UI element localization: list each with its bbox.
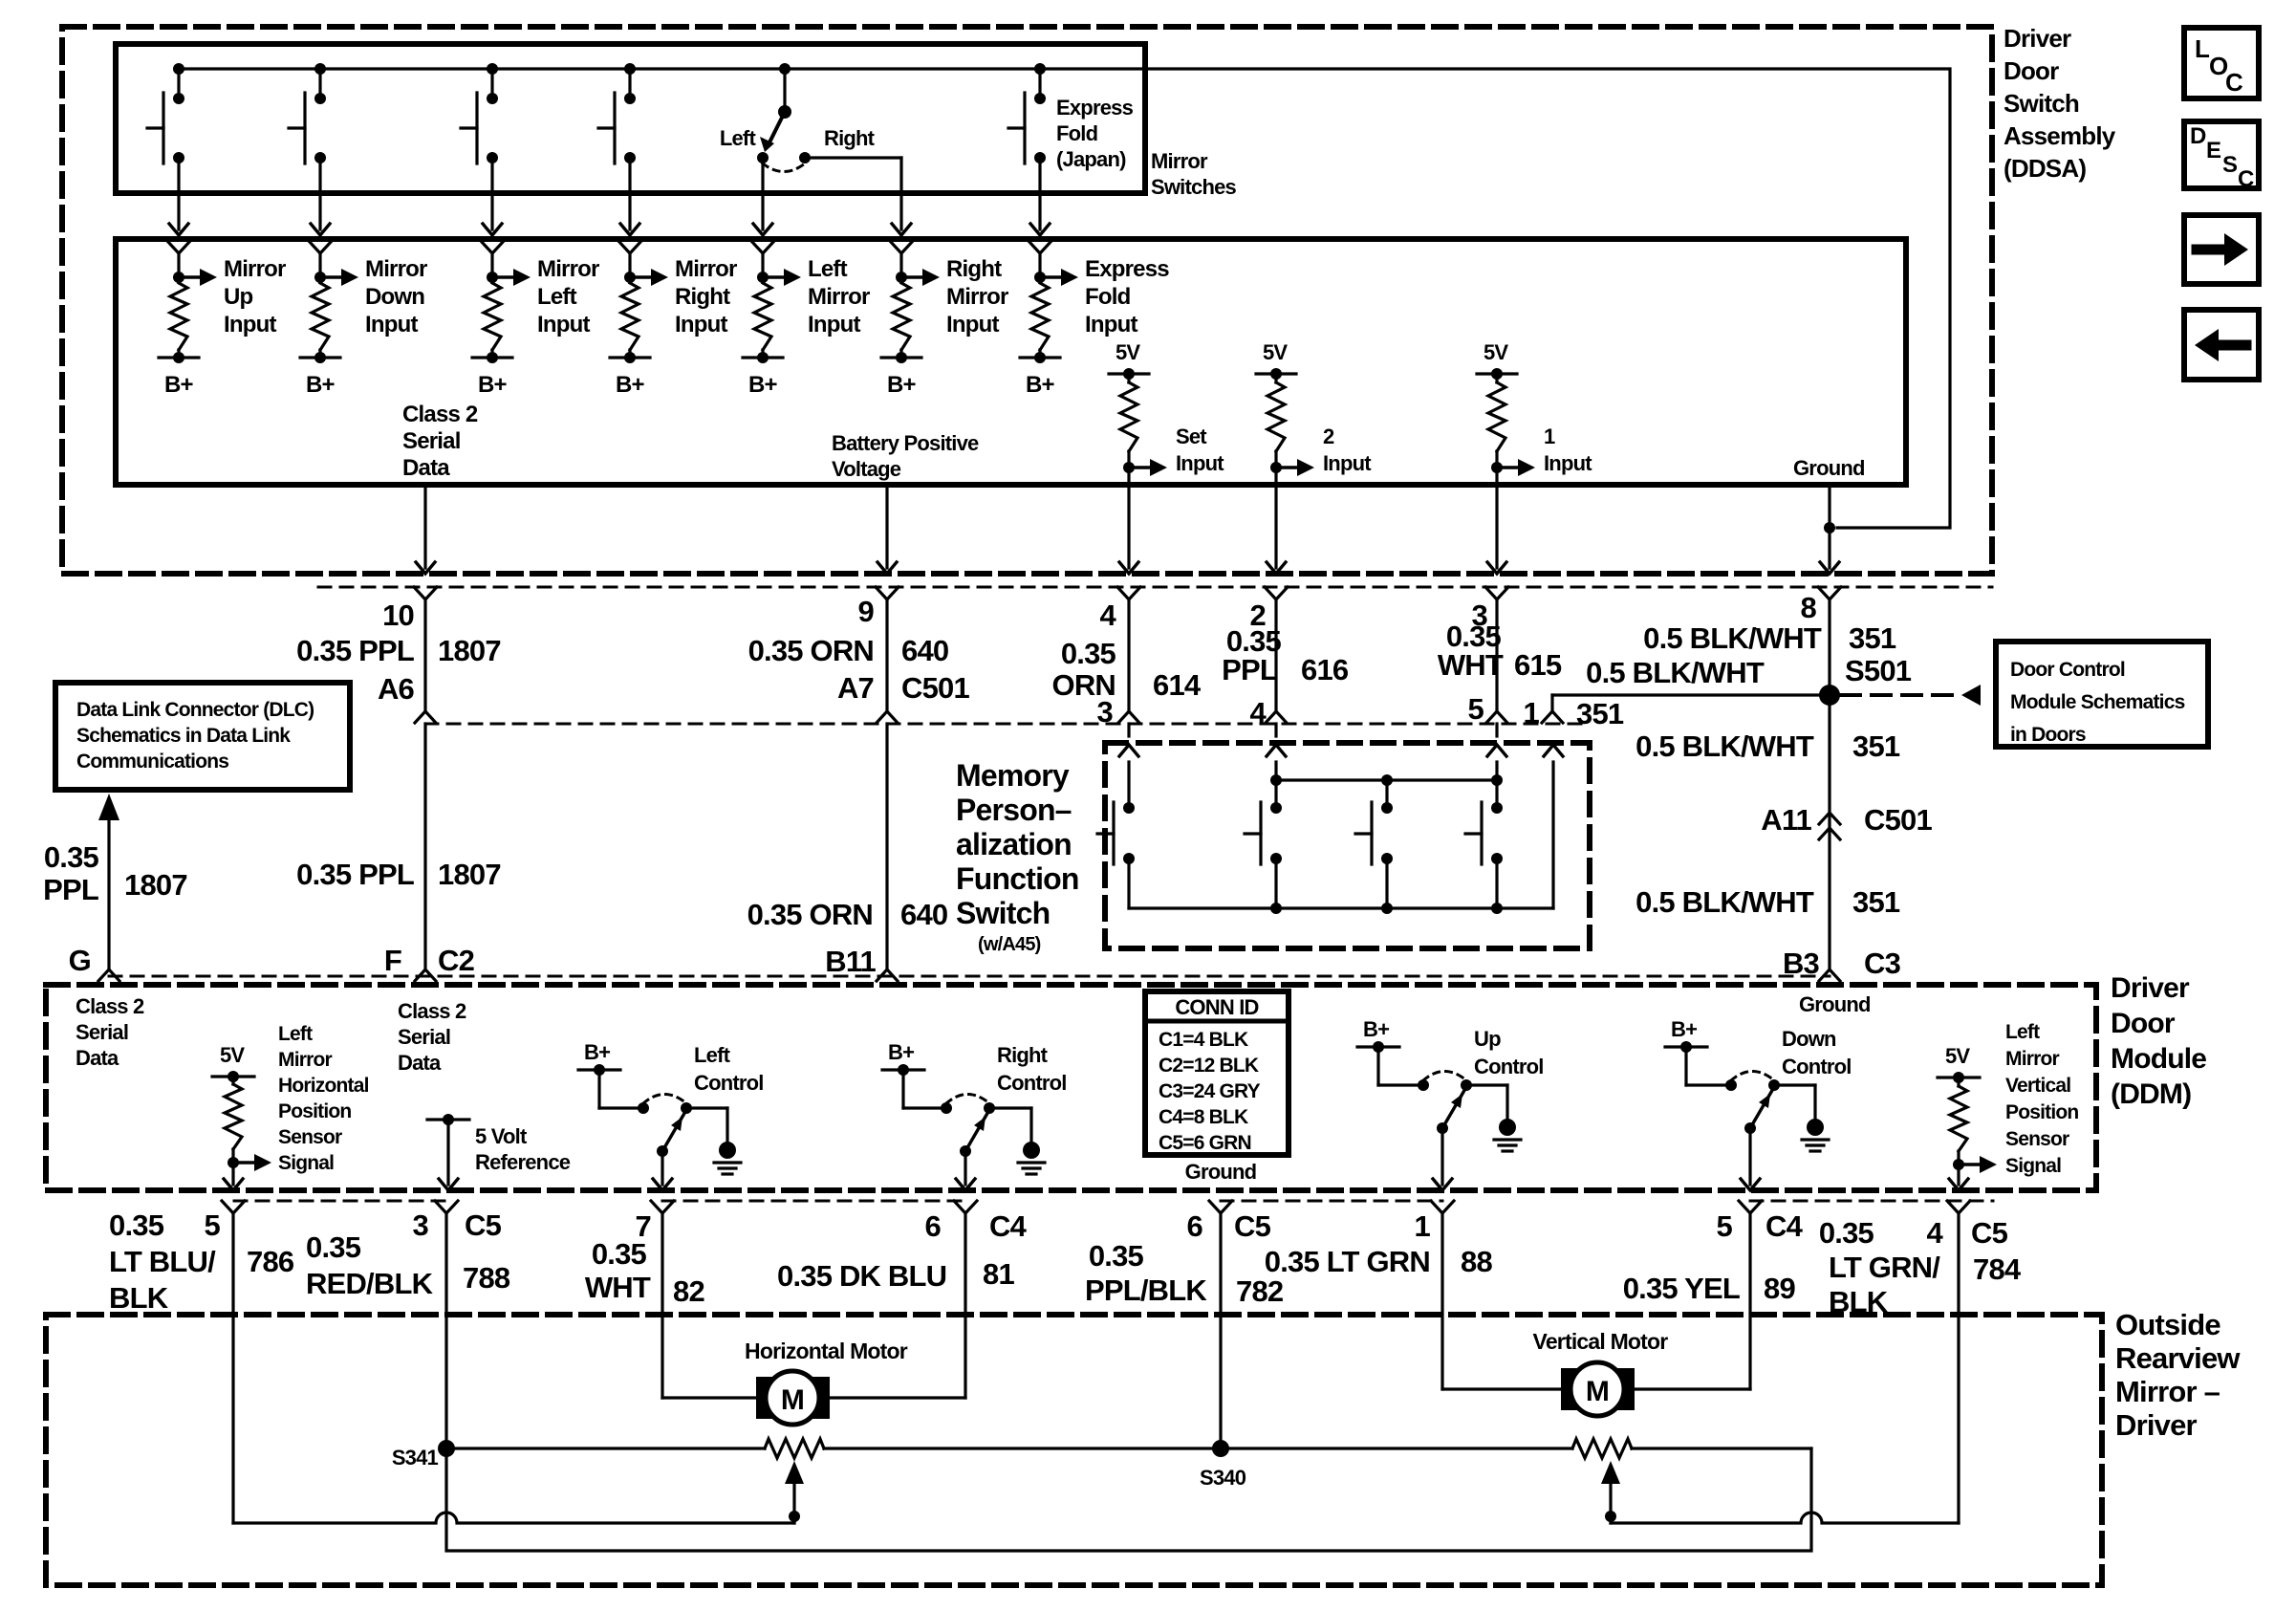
svg-text:Left: Left (694, 1043, 731, 1067)
svg-text:B+: B+ (1026, 372, 1055, 398)
resistor R8 set input pull-up (1127, 374, 1130, 382)
svg-text:640: 640 (901, 634, 948, 667)
svg-text:RED/BLK: RED/BLK (306, 1267, 434, 1300)
wire mirror up switch output (177, 158, 180, 229)
svg-text:Ground: Ground (1799, 992, 1871, 1016)
svg-text:Signal: Signal (2005, 1155, 2061, 1177)
wire 89 (1748, 1214, 1751, 1389)
wire mirror right switch output (628, 158, 631, 229)
svg-text:3: 3 (413, 1208, 429, 1242)
svg-text:M: M (781, 1384, 804, 1416)
svg-text:8: 8 (1801, 591, 1817, 624)
svg-text:in Doors: in Doors (2010, 724, 2086, 746)
svg-text:Reference: Reference (475, 1150, 571, 1174)
wire 640 through connector (885, 600, 888, 711)
svg-text:Mirror: Mirror (278, 1049, 333, 1071)
wire 89 exit DDM (1748, 1128, 1751, 1185)
svg-text:786: 786 (247, 1245, 294, 1278)
wire 1807 to DLC (node G) (98, 794, 119, 820)
pull-up resistor R4 mirror right input (624, 272, 636, 283)
DDM pin F symbol (415, 969, 436, 981)
svg-text:S: S (2222, 152, 2238, 178)
bus wire (switch common feed) (179, 69, 1950, 528)
svg-text:Serial: Serial (398, 1025, 450, 1049)
svg-text:Assembly: Assembly (2004, 121, 2116, 150)
wire 5V input exit x=1566 (1495, 485, 1498, 568)
svg-text:Down: Down (1782, 1027, 1836, 1051)
splice S340 (1212, 1440, 1229, 1457)
mirror down switch (318, 69, 321, 98)
wire R10 memory 1 input pull-up output (1495, 468, 1498, 485)
svg-text:Input: Input (1085, 312, 1137, 337)
connector C501 male pin x=1624 (1542, 711, 1563, 723)
svg-text:B+: B+ (478, 372, 508, 398)
connector C501 row (thin dashed) (318, 586, 1992, 589)
wire 615 through connector (1495, 600, 1498, 711)
lower connector female pin x=1509 (1431, 1201, 1454, 1213)
svg-text:PPL: PPL (1222, 653, 1277, 686)
pin (female) into DDSA box x=515 (481, 241, 504, 253)
wire wiper to 786 (with hop) (233, 1513, 794, 1523)
svg-text:C2: C2 (438, 944, 474, 977)
svg-text:Horizontal: Horizontal (278, 1075, 369, 1097)
horizontal sensor wiper (785, 1461, 804, 1484)
B+ supply for R1 mirror up input (177, 350, 180, 358)
connector C501 male pin x=1566 (1486, 711, 1507, 723)
svg-text:Input: Input (808, 312, 860, 337)
svg-text:Class 2: Class 2 (76, 994, 144, 1018)
svg-text:Class 2: Class 2 (402, 402, 478, 427)
wire 614 through connector (1127, 600, 1130, 711)
memory set switch (1123, 802, 1135, 814)
pin (female) into DDSA box x=1088 (1029, 241, 1051, 253)
svg-text:Express: Express (1085, 256, 1169, 282)
resistor R10 memory 1 input pull-up (1495, 374, 1498, 382)
svg-text:351: 351 (1852, 729, 1900, 763)
svg-text:Door: Door (2111, 1008, 2176, 1039)
svg-text:Serial: Serial (76, 1020, 128, 1044)
svg-text:782: 782 (1236, 1274, 1283, 1308)
connector C501 female pin x=1566 (1485, 587, 1508, 599)
wire 614 into memory switch (1127, 724, 1130, 736)
svg-text:4: 4 (1927, 1216, 1944, 1250)
wire memory 1 switch feed (1495, 762, 1498, 808)
Outside Rearview Mirror dashed box (46, 1315, 2102, 1585)
lower connector female pin x=467 (435, 1201, 458, 1213)
svg-text:S501: S501 (1845, 654, 1912, 687)
wire motor to 89 (1624, 1387, 1750, 1390)
svg-text:C3=24 GRY: C3=24 GRY (1159, 1080, 1261, 1102)
svg-text:1: 1 (1524, 696, 1540, 729)
svg-text:0.35 ORN: 0.35 ORN (748, 634, 874, 667)
svg-text:A6: A6 (378, 672, 415, 706)
vertical motor M2 (1561, 1368, 1635, 1410)
DDM pin B11 symbol (877, 969, 898, 981)
svg-text:(Japan): (Japan) (1056, 147, 1126, 171)
DESC legend box (2184, 121, 2259, 188)
svg-text:5: 5 (1717, 1209, 1733, 1243)
right-arrow legend box (2184, 215, 2259, 284)
DDM top connector row (thin dashed) (109, 975, 1830, 978)
svg-text:WHT: WHT (1438, 648, 1504, 682)
svg-text:A11: A11 (1761, 803, 1811, 837)
svg-text:Person–: Person– (956, 793, 1072, 827)
wire 82 to motor (662, 1396, 766, 1399)
svg-text:Communications: Communications (76, 751, 228, 773)
wire 351 pin8 (1828, 600, 1830, 969)
Driver Door Switch Assembly (DDSA) dashed boundary box (62, 27, 1992, 574)
resistor vertical position sensor track (1572, 1439, 1632, 1458)
B+ supply for R3 mirror left input (490, 350, 493, 358)
svg-text:351: 351 (1576, 697, 1624, 730)
svg-text:B11: B11 (825, 945, 876, 978)
memory switch top bus (1276, 778, 1497, 781)
svg-text:1807: 1807 (124, 868, 187, 902)
svg-text:F: F (384, 944, 401, 977)
lower connector female pin x=1831 (1739, 1201, 1762, 1213)
svg-text:Schematics in Data Link: Schematics in Data Link (76, 725, 291, 747)
svg-text:C501: C501 (1864, 803, 1932, 837)
svg-text:A7: A7 (837, 671, 874, 705)
svg-text:G: G (69, 944, 91, 977)
svg-text:Left: Left (720, 126, 757, 150)
svg-text:C5=6 GRN: C5=6 GRN (1159, 1132, 1251, 1154)
svg-text:0.35: 0.35 (44, 840, 99, 874)
svg-text:615: 615 (1514, 648, 1562, 682)
svg-text:Mirror: Mirror (537, 256, 599, 282)
vertical sensor wiper (1601, 1461, 1620, 1484)
svg-text:5 Volt: 5 Volt (475, 1124, 528, 1148)
wire 640 connector-to-DDM (node B11) (885, 724, 888, 969)
down control switch (1665, 1045, 1707, 1048)
svg-text:5: 5 (205, 1208, 221, 1242)
wire 615 into memory switch (1495, 724, 1498, 736)
svg-text:Left: Left (537, 284, 577, 310)
svg-text:0.5 BLK/WHT: 0.5 BLK/WHT (1643, 621, 1822, 655)
wire 351 pin1 stub (1550, 695, 1553, 711)
wire 5V track (S341 run) (446, 1447, 765, 1449)
Data Link Connector callout box (55, 683, 350, 790)
wire mirror down switch output (318, 158, 321, 229)
svg-text:Fold: Fold (1085, 284, 1131, 310)
bus junction node x=1088 (1034, 63, 1046, 75)
wire memory ground riser (1551, 762, 1554, 908)
wire ground pin 8 (1828, 485, 1830, 568)
wire memory 2 switch feed (1274, 762, 1277, 808)
svg-text:M: M (1586, 1376, 1609, 1407)
svg-text:C: C (2238, 166, 2254, 192)
wire class2 serial data pin 10 (423, 485, 426, 568)
B+ supply for R7 express fold input (1038, 350, 1041, 358)
lower connector female pin x=1277 (1209, 1201, 1232, 1213)
svg-text:0.35 ORN: 0.35 ORN (747, 898, 873, 931)
svg-text:Mirror: Mirror (2005, 1048, 2060, 1070)
svg-text:Ground: Ground (1185, 1160, 1257, 1184)
svg-text:Up: Up (1474, 1027, 1501, 1051)
splice S501 (1819, 685, 1840, 706)
svg-text:Driver: Driver (2115, 1408, 2198, 1442)
svg-text:S340: S340 (1200, 1466, 1246, 1490)
svg-text:3: 3 (1097, 695, 1114, 729)
svg-text:Input: Input (1544, 451, 1592, 475)
svg-text:B+: B+ (164, 372, 194, 398)
svg-text:81: 81 (983, 1257, 1014, 1291)
svg-text:Battery Positive: Battery Positive (832, 431, 979, 455)
svg-text:B+: B+ (1671, 1017, 1697, 1041)
svg-text:Right: Right (997, 1043, 1049, 1067)
svg-text:Down: Down (365, 284, 424, 310)
svg-text:B+: B+ (1363, 1017, 1389, 1041)
svg-text:5V: 5V (1263, 340, 1288, 364)
svg-text:Vertical: Vertical (2005, 1075, 2070, 1097)
bus junction node x=187 (173, 63, 184, 75)
svg-text:Control: Control (1474, 1055, 1544, 1078)
svg-text:4: 4 (1250, 696, 1267, 729)
svg-text:784: 784 (1973, 1252, 2022, 1286)
svg-text:C4: C4 (1765, 1209, 1804, 1243)
memory 2 switch (1270, 802, 1282, 814)
svg-text:B+: B+ (887, 372, 917, 398)
wire selector right output (805, 156, 901, 159)
svg-text:6: 6 (1187, 1209, 1203, 1243)
svg-text:(DDM): (DDM) (2111, 1078, 2191, 1110)
svg-text:Rearview: Rearview (2115, 1341, 2241, 1375)
svg-text:Input: Input (224, 312, 276, 337)
svg-text:PPL: PPL (43, 873, 98, 906)
lower connector female pin x=244 (222, 1201, 245, 1213)
memory switch pin (up arrow) x=1335 (1267, 745, 1286, 756)
svg-text:Data: Data (398, 1051, 442, 1075)
svg-text:0.35 LT GRN: 0.35 LT GRN (1265, 1245, 1430, 1278)
wire express fold output (1038, 158, 1041, 229)
wire 1807 connector-to-DDM (node F) (423, 724, 426, 969)
B+ supply for R6 right mirror input (899, 350, 902, 358)
svg-text:0.5 BLK/WHT: 0.5 BLK/WHT (1586, 656, 1765, 689)
CONN ID table (1145, 991, 1289, 1155)
svg-text:Up: Up (224, 284, 253, 310)
svg-text:Horizontal Motor: Horizontal Motor (745, 1339, 908, 1363)
wire to door control module schematics (dashed) (1841, 693, 1958, 697)
bus junction node x=821 (779, 63, 791, 75)
connector C501 male pin x=445 (415, 711, 436, 723)
svg-text:5V: 5V (1116, 340, 1140, 364)
wire R9 memory 2 input pull-up output (1274, 468, 1277, 485)
svg-text:C501: C501 (901, 671, 969, 705)
svg-text:Function: Function (956, 861, 1079, 896)
wire 616 through connector (1274, 600, 1277, 711)
pin (female) into DDSA box x=798 (751, 241, 774, 253)
svg-text:Express: Express (1056, 96, 1134, 120)
svg-text:0.35 PPL: 0.35 PPL (296, 634, 414, 667)
svg-text:614: 614 (1153, 668, 1202, 702)
svg-text:C1=4 BLK: C1=4 BLK (1159, 1029, 1248, 1051)
svg-text:1: 1 (1544, 425, 1555, 448)
DDM pin B3 symbol (1819, 969, 1840, 981)
svg-text:Module Schematics: Module Schematics (2010, 691, 2185, 713)
svg-text:Switch: Switch (2004, 89, 2079, 118)
mirror right switch (628, 69, 631, 98)
svg-text:Position: Position (2005, 1101, 2078, 1123)
svg-text:Input: Input (675, 312, 727, 337)
wire 1807 through connector (423, 600, 426, 711)
svg-text:C4: C4 (989, 1209, 1028, 1243)
svg-text:LT GRN/: LT GRN/ (1829, 1251, 1940, 1284)
svg-text:Right: Right (675, 284, 730, 310)
memory switch pin (up arrow) x=1181 (1119, 745, 1138, 756)
svg-text:0.35: 0.35 (1061, 637, 1116, 670)
wire 786 (231, 1214, 234, 1523)
wire 88 (1440, 1214, 1443, 1389)
wire 5V input exit x=1335 (1274, 485, 1277, 568)
lower connector row dashes (234, 1200, 446, 1203)
bus junction node x=515 (487, 63, 498, 75)
wire 782 (1219, 1214, 1222, 1448)
Memory Personalization Function Switch dashed box (1105, 743, 1590, 948)
svg-text:1807: 1807 (438, 634, 501, 667)
connector C501 female pin x=928 (876, 587, 899, 599)
pin (female) into DDSA box x=943 (890, 241, 913, 253)
svg-text:Input: Input (1176, 451, 1224, 475)
svg-text:L: L (2195, 34, 2210, 63)
lower connector female pin x=1010 (954, 1201, 977, 1213)
bus junction node x=659 (624, 63, 636, 75)
left-arrow legend box (2184, 310, 2259, 380)
svg-text:5: 5 (1468, 692, 1484, 726)
pull-up resistor R3 mirror left input (487, 272, 498, 283)
svg-text:Left: Left (278, 1023, 313, 1045)
Door Control Module Schematics callout box (1996, 642, 2208, 747)
svg-text:89: 89 (1764, 1272, 1795, 1305)
wire set switch feed (1127, 762, 1130, 808)
svg-text:82: 82 (673, 1274, 704, 1308)
resistor R9 memory 2 input pull-up (1274, 374, 1277, 382)
svg-text:C5: C5 (1971, 1216, 2008, 1250)
svg-text:B+: B+ (888, 1040, 914, 1064)
pull-up resistor R2 mirror down input (314, 272, 326, 283)
left control switch (578, 1068, 620, 1071)
Driver Door Module (DDM) dashed box (46, 985, 2096, 1190)
svg-text:B+: B+ (584, 1040, 610, 1064)
B+ supply for R4 mirror right input (628, 350, 631, 358)
wire 784 (1957, 1214, 1960, 1523)
svg-text:Driver: Driver (2004, 24, 2071, 53)
svg-text:C3: C3 (1864, 947, 1901, 980)
pin (female) into DDSA box x=187 (167, 241, 190, 253)
DDSA input circuits box (116, 239, 1906, 485)
svg-text:Outside: Outside (2115, 1308, 2220, 1341)
memory 1 switch (1491, 802, 1503, 814)
svg-text:Set: Set (1176, 425, 1207, 448)
svg-text:5V: 5V (1945, 1044, 1970, 1068)
pull-up resistor R5 left mirror input (757, 272, 769, 283)
memory mid switch (1381, 802, 1393, 814)
svg-text:0.35 YEL: 0.35 YEL (1623, 1272, 1740, 1305)
svg-text:0.35: 0.35 (1819, 1216, 1874, 1250)
pin (female) into DDSA box x=659 (618, 241, 641, 253)
pull-up resistor R7 express fold input (1034, 272, 1046, 283)
svg-text:616: 616 (1301, 653, 1349, 686)
wire 616 into memory switch (1274, 724, 1277, 736)
resistor left mirror vertical position sensor (1957, 1078, 1960, 1086)
svg-text:Input: Input (537, 312, 590, 337)
svg-text:1: 1 (1415, 1209, 1431, 1243)
svg-text:Data Link Connector (DLC): Data Link Connector (DLC) (76, 699, 314, 721)
right control switch (882, 1068, 924, 1071)
svg-text:Mirror –: Mirror – (2115, 1375, 2220, 1408)
memory switch pin (up arrow) x=1625 (1544, 745, 1563, 756)
svg-text:10: 10 (382, 599, 414, 632)
svg-text:4: 4 (1100, 599, 1117, 632)
resistor left mirror horizontal position sensor (231, 1077, 234, 1084)
svg-text:D: D (2190, 123, 2206, 149)
svg-text:alization: alization (956, 827, 1072, 861)
svg-text:9: 9 (858, 595, 875, 628)
svg-text:Input: Input (365, 312, 418, 337)
connector C501 male pin x=1181 (1118, 711, 1139, 723)
resistor horizontal position sensor track (765, 1439, 824, 1458)
svg-text:Door Control: Door Control (2010, 659, 2125, 681)
mirror left switch (490, 69, 493, 98)
svg-text:WHT: WHT (585, 1271, 651, 1304)
svg-text:Control: Control (1782, 1055, 1852, 1078)
svg-text:Control: Control (997, 1071, 1067, 1095)
wire memory mid switch feed (1385, 780, 1388, 808)
wire R8 set input pull-up output (1127, 468, 1130, 485)
svg-text:C5: C5 (1234, 1209, 1271, 1243)
svg-text:Left: Left (2005, 1021, 2040, 1043)
svg-text:(DDSA): (DDSA) (2004, 154, 2086, 183)
express fold switch (1038, 69, 1041, 98)
svg-text:C5: C5 (465, 1208, 502, 1242)
wire wiper to 784 (with hop) (1611, 1513, 1959, 1523)
svg-text:CONN ID: CONN ID (1175, 995, 1258, 1019)
wire 81 exit DDM (964, 1151, 966, 1185)
svg-text:Left: Left (808, 256, 848, 282)
connector C501 male pin x=928 (877, 711, 898, 723)
svg-text:Module: Module (2111, 1043, 2206, 1075)
svg-text:351: 351 (1852, 885, 1900, 919)
connector C501 female pin x=1914 (1818, 587, 1841, 599)
connector C501 male pin x=1335 (1266, 711, 1287, 723)
svg-text:Input: Input (946, 312, 999, 337)
Mirror Switches box (116, 44, 1145, 193)
svg-text:Data: Data (402, 455, 450, 481)
svg-text:Right: Right (946, 256, 1002, 282)
DDM pin G symbol (98, 969, 119, 981)
B+ supply for R2 mirror down input (318, 350, 321, 358)
memory switch pin (up arrow) x=1566 (1487, 745, 1506, 756)
svg-text:0.35 PPL: 0.35 PPL (296, 858, 414, 891)
svg-text:B+: B+ (748, 372, 778, 398)
svg-text:Ground: Ground (1793, 456, 1865, 480)
wire battery positive pin 9 (885, 485, 888, 568)
wire 88 to motor (1442, 1387, 1570, 1390)
svg-text:Input: Input (1323, 451, 1372, 475)
svg-text:Sensor: Sensor (278, 1126, 342, 1148)
svg-text:(w/A45): (w/A45) (978, 934, 1041, 955)
memory switch ground bus (1129, 906, 1553, 909)
svg-text:0.5 BLK/WHT: 0.5 BLK/WHT (1635, 885, 1814, 919)
svg-text:PPL/BLK: PPL/BLK (1085, 1274, 1207, 1307)
wire selector left output (761, 158, 764, 229)
svg-text:0.5 BLK/WHT: 0.5 BLK/WHT (1635, 729, 1814, 763)
svg-text:S341: S341 (392, 1446, 439, 1469)
svg-text:C2=12 BLK: C2=12 BLK (1159, 1055, 1259, 1077)
svg-text:1807: 1807 (438, 858, 501, 891)
pull-up resistor R6 right mirror input (896, 272, 907, 283)
inline connector A11 C501 symbol (1819, 813, 1840, 824)
svg-text:Serial: Serial (402, 428, 461, 454)
